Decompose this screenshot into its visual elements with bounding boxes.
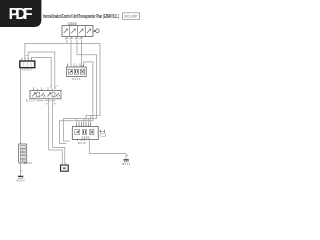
- wire battery to switch A: [28, 52, 55, 89]
- immobilizer unit 1320: [72, 123, 98, 145]
- wire C005 pin2 to unit: [70, 40, 72, 67]
- connector D060: [19, 143, 33, 166]
- svg-text:D060: D060: [24, 162, 33, 165]
- wire H1: [25, 44, 100, 60]
- ignition switch block B001: [26, 88, 61, 103]
- fuse box C005: [62, 22, 93, 37]
- header title: [43, 14, 119, 20]
- svg-text:1320: 1320: [81, 136, 89, 140]
- wire loop R2: [64, 40, 97, 141]
- connector stub right of C005: [93, 29, 99, 33]
- PDF badge: [0, 0, 41, 27]
- wire D060 to ground M000: [20, 163, 22, 176]
- svg-text:08.11.2007: 08.11.2007: [125, 15, 138, 19]
- wire C005 pin1: [66, 40, 68, 44]
- svg-text:B001: B001: [26, 99, 36, 102]
- svg-text:A001A: A001A: [22, 69, 32, 72]
- battery A001: [20, 55, 35, 72]
- wire switch to antenna A: [49, 99, 63, 164]
- wire battery to switch B: [31, 58, 51, 89]
- ground M010 right: [122, 155, 131, 166]
- wire loop R3: [60, 62, 93, 144]
- svg-text:Inmovilizador/Control Unit/Tra: Inmovilizador/Control Unit/Transponder P…: [43, 14, 119, 20]
- wire battery to D060: [20, 68, 22, 144]
- header date box: [123, 13, 140, 20]
- svg-text:PDF: PDF: [9, 6, 33, 23]
- wire loop R1: [86, 44, 100, 127]
- svg-text:B006: B006: [72, 78, 81, 81]
- pins under C005: [65, 37, 83, 40]
- inline connector on right of 1320: [98, 130, 105, 136]
- transponder antenna: [61, 163, 69, 171]
- svg-text:M000: M000: [17, 180, 26, 183]
- ground M000: [17, 171, 26, 183]
- wire C005 pin4 to unit: [81, 40, 83, 67]
- wire switch to antenna B: [53, 99, 65, 164]
- wire 1320 to ground M010: [89, 140, 126, 160]
- wire 1320 pin drops: [77, 116, 91, 127]
- control unit B006: [66, 64, 86, 81]
- svg-text:M010: M010: [78, 142, 87, 145]
- svg-text:M010: M010: [122, 163, 131, 166]
- wire label specks: [46, 86, 58, 105]
